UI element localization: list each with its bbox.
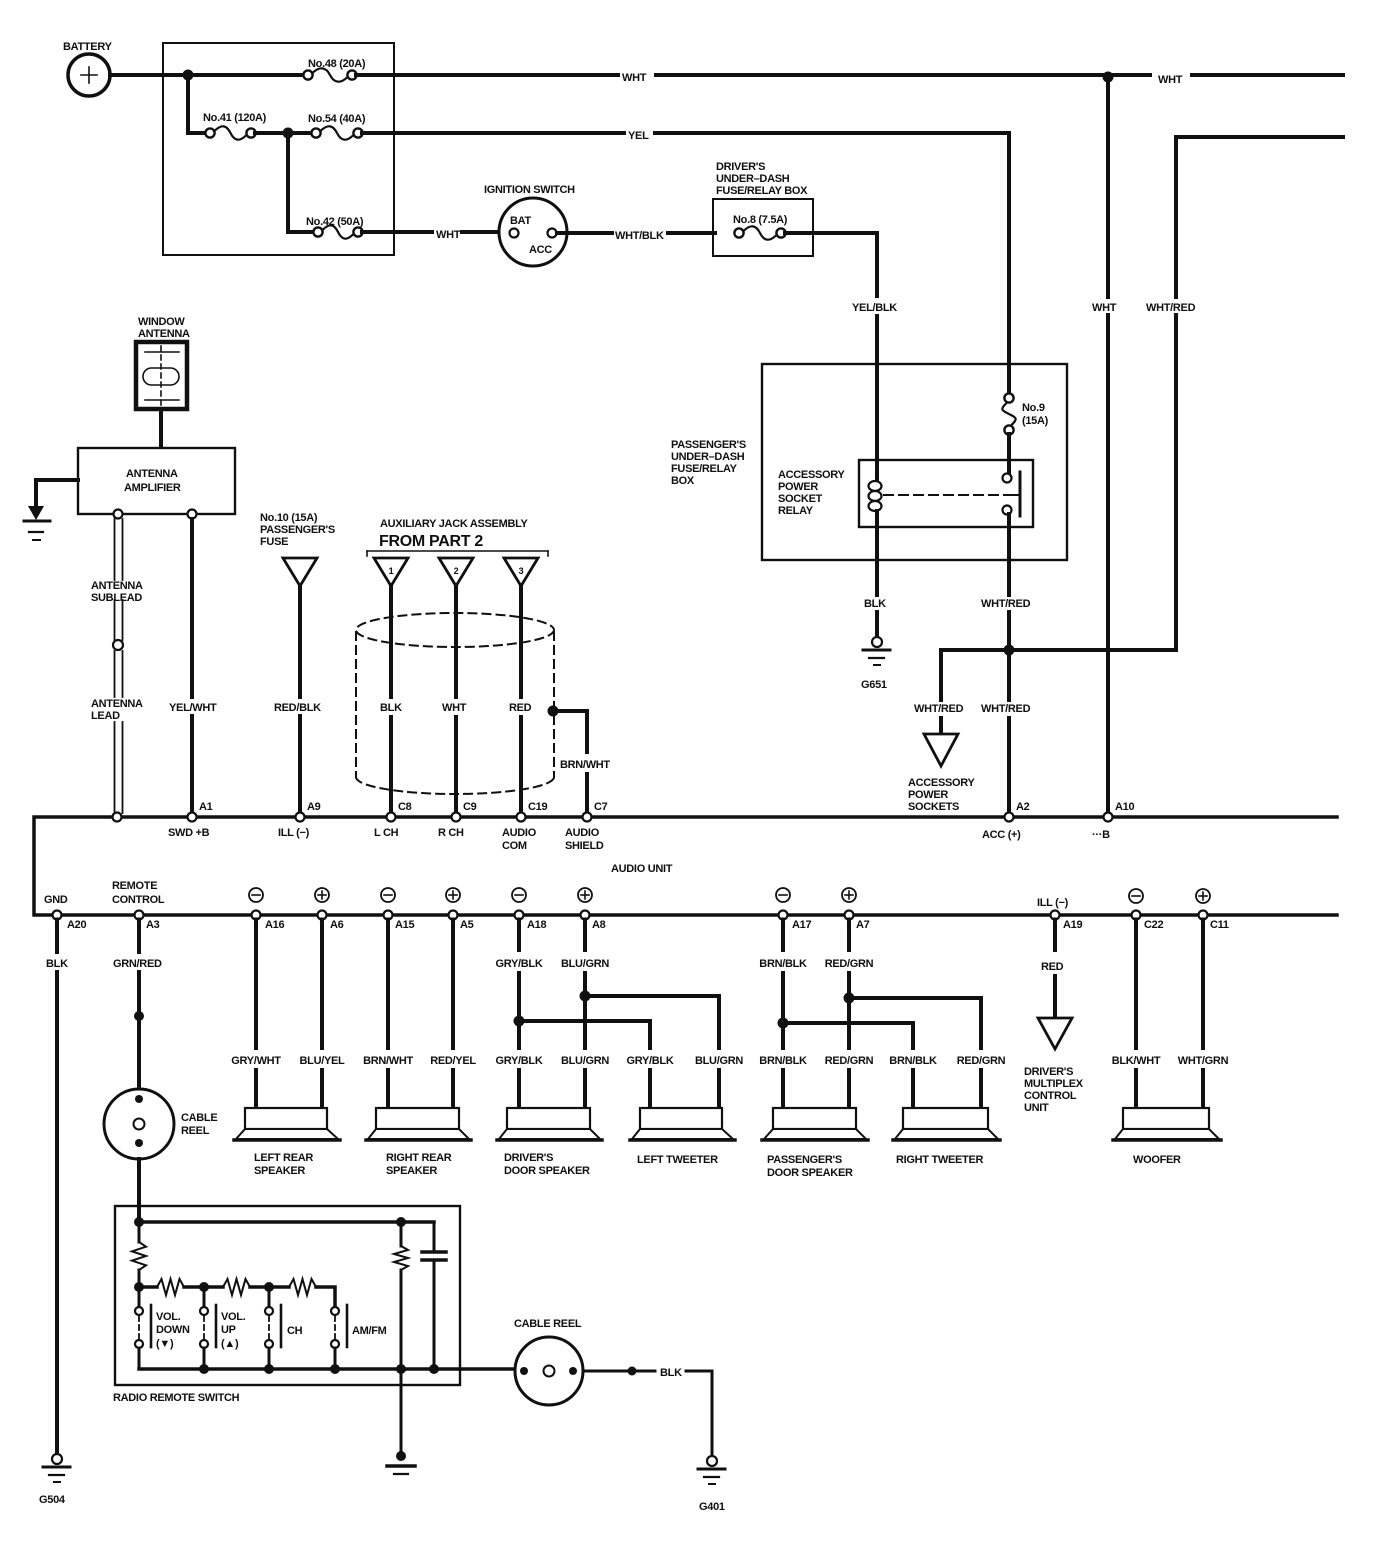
connector 2 — [439, 558, 473, 586]
svg-text:R CH: R CH — [438, 827, 464, 839]
svg-text:No.10 (15A): No.10 (15A) — [260, 512, 318, 524]
svg-text:G504: G504 — [39, 1494, 66, 1506]
node A8 branch — [580, 991, 591, 1002]
svg-text:ANTENNA: ANTENNA — [91, 580, 143, 592]
svg-text:PASSENGER'S: PASSENGER'S — [260, 524, 335, 536]
node fuse junction — [283, 128, 294, 139]
svg-text:WOOFER: WOOFER — [1133, 1154, 1181, 1166]
ignition switch — [484, 184, 575, 266]
wire window antenna to amplifier — [159, 409, 163, 448]
node bottom bus R2 — [396, 1364, 406, 1374]
terminal A6 — [315, 888, 344, 931]
wire WHT/RED relay contact down — [1007, 514, 1011, 560]
fuse No.10 passenger's fuse connector — [260, 512, 335, 586]
svg-text:POWER: POWER — [778, 481, 818, 493]
wire RED multiplex — [1053, 920, 1057, 951]
right tweeter — [893, 1108, 1000, 1166]
label BRN/WHT lower — [362, 1054, 414, 1068]
svg-text:RED: RED — [1041, 961, 1064, 973]
terminal C8 — [374, 801, 412, 839]
connector driver's multiplex control unit — [1024, 1018, 1084, 1114]
terminal A15 — [381, 888, 414, 931]
terminal A8 — [578, 888, 606, 931]
ground G401 — [698, 1456, 725, 1513]
svg-text:SUBLEAD: SUBLEAD — [91, 592, 142, 604]
radio remote switch box — [115, 1206, 460, 1385]
label RED/GRN lower — [823, 1054, 875, 1068]
terminal A3 — [112, 880, 165, 931]
wire amplifier to chassis ground — [36, 480, 78, 506]
relay coil — [869, 364, 882, 560]
svg-text:AUXILIARY JACK ASSEMBLY: AUXILIARY JACK ASSEMBLY — [380, 518, 528, 530]
svg-text:A19: A19 — [1063, 919, 1082, 931]
ground G504 — [39, 1454, 70, 1506]
under-hood fuse box outline — [163, 43, 394, 255]
wire GRY/WHT left rear - — [254, 920, 258, 1049]
svg-text:A8: A8 — [592, 919, 606, 931]
switch VOL UP — [200, 1287, 246, 1369]
ground G651 — [861, 637, 890, 691]
wire ladder end to AM/FM switch — [316, 1287, 335, 1305]
wire RED/GRN passenger's door + — [847, 920, 851, 951]
wire cable reel to switch box — [137, 1159, 141, 1222]
label RED — [1039, 960, 1063, 974]
right rear speaker — [366, 1108, 471, 1177]
wire WHT vertical right — [1106, 75, 1110, 297]
svg-text:RELAY: RELAY — [778, 505, 814, 517]
label WHT/RED right — [979, 702, 1031, 716]
svg-text:L CH: L CH — [374, 827, 399, 839]
wire RED/GRN branch to right tweeter — [849, 998, 981, 1048]
svg-text:REEL: REEL — [181, 1125, 210, 1137]
label BLK/WHT lower — [1110, 1054, 1162, 1068]
svg-text:C22: C22 — [1144, 919, 1163, 931]
svg-text:A15: A15 — [395, 919, 414, 931]
driver's under-dash fuse/relay box — [713, 161, 813, 256]
svg-text:A18: A18 — [527, 919, 546, 931]
wire WHT/GRN woofer + — [1201, 920, 1205, 1049]
svg-text:REMOTE: REMOTE — [112, 880, 157, 892]
svg-text:VOL.: VOL. — [221, 1311, 246, 1323]
svg-text:LEFT TWEETER: LEFT TWEETER — [637, 1154, 718, 1166]
svg-text:ILL (−): ILL (−) — [278, 827, 310, 839]
svg-text:LEAD: LEAD — [91, 710, 120, 722]
wire battery to fuse box — [110, 73, 186, 77]
svg-text:WHT/RED: WHT/RED — [1146, 302, 1196, 314]
svg-text:ANTENNA: ANTENNA — [91, 698, 143, 710]
svg-text:GRN/RED: GRN/RED — [113, 958, 162, 970]
wire BLU/YEL left rear + — [320, 920, 324, 1049]
svg-text:UP: UP — [221, 1324, 236, 1336]
label BLU/GRN tweeter — [693, 1054, 745, 1068]
terminal A16 — [249, 888, 284, 931]
switch VOL DOWN — [135, 1287, 190, 1369]
terminal A5 — [446, 888, 474, 931]
wire WHT/RED to accessory sockets — [939, 650, 943, 700]
fuse No.9 (15A) — [1002, 364, 1048, 435]
svg-text:RIGHT REAR: RIGHT REAR — [386, 1152, 452, 1164]
svg-text:A20: A20 — [67, 919, 86, 931]
connector accessory power sockets — [908, 734, 976, 813]
label BLK aux — [378, 701, 402, 715]
svg-text:ANTENNA: ANTENNA — [138, 328, 190, 340]
wire GRN/RED remote control — [137, 920, 141, 953]
terminal A18 — [512, 888, 546, 931]
svg-text:CONTROL: CONTROL — [112, 894, 165, 906]
svg-text:A17: A17 — [792, 919, 811, 931]
label RED/GRN upper — [823, 957, 875, 971]
wire WHT aux — [454, 586, 458, 697]
resistor R5 — [289, 1279, 316, 1295]
terminal A9 — [278, 801, 321, 839]
fuse No.42 (50A) — [306, 216, 364, 239]
wire junction down to No.41 — [188, 75, 206, 133]
wire No.41 to No.54 — [255, 131, 312, 135]
svg-text:···B: ···B — [1092, 829, 1110, 841]
svg-text:C11: C11 — [1210, 919, 1229, 931]
left tweeter — [630, 1108, 735, 1166]
svg-text:GND: GND — [44, 894, 68, 906]
svg-text:WHT: WHT — [442, 702, 467, 714]
svg-text:ANTENNA: ANTENNA — [126, 468, 178, 480]
svg-text:LEFT REAR: LEFT REAR — [254, 1152, 313, 1164]
wire BLU/GRN driver's door + — [583, 920, 587, 951]
svg-text:DOOR SPEAKER: DOOR SPEAKER — [767, 1167, 853, 1179]
svg-text:BLK: BLK — [864, 598, 886, 610]
terminal A20 — [44, 894, 86, 931]
node bottom bus C1 — [429, 1364, 439, 1374]
wire WHT to ignition switch — [362, 230, 432, 234]
svg-text:WINDOW: WINDOW — [138, 316, 185, 328]
wire YEL/BLK from No.8 down — [785, 233, 877, 296]
label WHT/RED left — [912, 702, 964, 716]
wire junction to fuse No.48 — [188, 73, 304, 77]
svg-text:UNDER–DASH: UNDER–DASH — [716, 173, 790, 185]
svg-text:BAT: BAT — [510, 215, 531, 227]
svg-text:DOWN: DOWN — [156, 1324, 190, 1336]
ground radio remote switch — [387, 1451, 415, 1474]
label WHT aux — [440, 701, 464, 715]
node WHT junction — [1103, 72, 1114, 83]
svg-text:(15A): (15A) — [1022, 415, 1049, 427]
node remote splice — [134, 1011, 144, 1021]
svg-text:WHT: WHT — [1158, 74, 1183, 86]
svg-text:C9: C9 — [463, 801, 477, 813]
terminal C9 — [438, 801, 477, 839]
node ladder 3 — [264, 1282, 274, 1292]
svg-text:A16: A16 — [265, 919, 284, 931]
svg-text:No.48 (20A): No.48 (20A) — [308, 58, 366, 70]
label RED/GRN tweeter — [955, 1054, 1007, 1068]
auxiliary jack assembly from part 2 — [367, 518, 548, 556]
svg-text:RED/GRN: RED/GRN — [825, 1055, 874, 1067]
node A17 branch — [778, 1018, 789, 1029]
svg-text:BRN/WHT: BRN/WHT — [363, 1055, 413, 1067]
wire WHT horizontal — [356, 73, 618, 77]
fuse No.54 (40A) — [308, 113, 366, 140]
label WHT/GRN lower — [1177, 1054, 1229, 1068]
svg-text:BLU/YEL: BLU/YEL — [300, 1055, 346, 1067]
svg-text:COM: COM — [502, 840, 527, 852]
svg-text:BLK: BLK — [660, 1367, 682, 1379]
antenna amplifier — [78, 448, 235, 514]
svg-text:WHT/RED: WHT/RED — [981, 598, 1031, 610]
terminal A19 — [1037, 897, 1082, 931]
svg-text:G401: G401 — [699, 1501, 725, 1513]
svg-text:BLU/GRN: BLU/GRN — [561, 958, 609, 970]
svg-text:AUDIO: AUDIO — [502, 827, 537, 839]
switch CH — [265, 1287, 303, 1369]
driver's door speaker — [497, 1108, 602, 1177]
terminal A10 — [1092, 801, 1134, 841]
svg-text:POWER: POWER — [908, 789, 948, 801]
fuse No.48 (20A) — [303, 58, 365, 82]
audio unit outline — [34, 817, 1337, 915]
svg-text:AUDIO: AUDIO — [565, 827, 600, 839]
svg-text:MULTIPLEX: MULTIPLEX — [1024, 1078, 1084, 1090]
wire BRN/WHT right rear - — [386, 920, 390, 1049]
svg-text:CONTROL: CONTROL — [1024, 1090, 1077, 1102]
wire BLU/GRN branch to left tweeter — [585, 996, 719, 1048]
terminal A7 — [842, 888, 870, 931]
svg-text:CABLE: CABLE — [181, 1112, 217, 1124]
svg-text:GRY/WHT: GRY/WHT — [231, 1055, 281, 1067]
svg-text:CABLE REEL: CABLE REEL — [514, 1318, 582, 1330]
fuse No.8 (7.5A) — [733, 214, 788, 240]
label BRN/WHT — [558, 758, 610, 772]
svg-text:WHT/GRN: WHT/GRN — [1178, 1055, 1229, 1067]
svg-text:DRIVER'S: DRIVER'S — [504, 1152, 553, 1164]
svg-text:RED/GRN: RED/GRN — [957, 1055, 1006, 1067]
terminal amplifier sublead — [114, 510, 123, 519]
svg-text:SWD +B: SWD +B — [168, 827, 210, 839]
svg-text:RED/GRN: RED/GRN — [825, 958, 874, 970]
svg-text:UNDER–DASH: UNDER–DASH — [671, 451, 745, 463]
svg-text:RADIO REMOTE SWITCH: RADIO REMOTE SWITCH — [113, 1392, 240, 1404]
svg-text:AM/FM: AM/FM — [352, 1325, 387, 1337]
label BRN/BLK tweeter — [887, 1054, 939, 1068]
label BLU/YEL lower — [296, 1054, 348, 1068]
svg-text:UNIT: UNIT — [1024, 1102, 1049, 1114]
svg-text:WHT/BLK: WHT/BLK — [615, 230, 664, 242]
svg-text:ACCESSORY: ACCESSORY — [778, 469, 846, 481]
resistor R4 — [223, 1279, 250, 1295]
svg-text:SPEAKER: SPEAKER — [386, 1165, 437, 1177]
terminal C19 — [502, 801, 547, 852]
svg-text:A6: A6 — [330, 919, 344, 931]
chassis ground (antenna amplifier) — [24, 506, 50, 540]
wire resistor ladder — [139, 1285, 157, 1289]
svg-text:BRN/WHT: BRN/WHT — [560, 759, 610, 771]
svg-text:SPEAKER: SPEAKER — [254, 1165, 305, 1177]
svg-text:A10: A10 — [1115, 801, 1134, 813]
wire YEL horizontal — [362, 131, 624, 135]
label GRY/BLK upper — [493, 957, 545, 971]
terminal C22 — [1129, 889, 1163, 931]
battery — [63, 41, 113, 96]
node bottom bus sw2 — [199, 1364, 209, 1374]
wire internal bottom bus — [139, 1367, 515, 1371]
node bottom bus sw4 — [330, 1364, 340, 1374]
svg-text:A3: A3 — [146, 919, 160, 931]
svg-text:No.8 (7.5A): No.8 (7.5A) — [733, 214, 788, 226]
svg-text:RED/YEL: RED/YEL — [430, 1055, 476, 1067]
svg-text:FUSE/RELAY BOX: FUSE/RELAY BOX — [716, 185, 808, 197]
svg-text:BLU/GRN: BLU/GRN — [695, 1055, 743, 1067]
svg-text:YEL: YEL — [628, 130, 649, 142]
node A18 branch — [514, 1016, 525, 1027]
label BLU/GRN upper — [559, 957, 611, 971]
wire YEL/WHT — [190, 519, 194, 697]
svg-text:ACCESSORY: ACCESSORY — [908, 777, 976, 789]
svg-text:C7: C7 — [594, 801, 608, 813]
terminal A1 — [168, 801, 213, 839]
svg-text:YEL/BLK: YEL/BLK — [852, 302, 897, 314]
svg-text:WHT: WHT — [622, 72, 647, 84]
svg-text:DOOR SPEAKER: DOOR SPEAKER — [504, 1165, 590, 1177]
fuse No.41 (120A) — [203, 112, 267, 140]
svg-text:No.9: No.9 — [1022, 402, 1045, 414]
wire BRN/BLK branch to right tweeter — [783, 1023, 913, 1048]
svg-text:(▲): (▲) — [221, 1338, 239, 1350]
svg-text:BRN/BLK: BRN/BLK — [759, 958, 807, 970]
label BRN/BLK lower — [757, 1054, 809, 1068]
svg-text:PASSENGER'S: PASSENGER'S — [767, 1154, 842, 1166]
svg-text:CH: CH — [287, 1325, 303, 1337]
svg-text:No.54 (40A): No.54 (40A) — [308, 113, 366, 125]
svg-text:BRN/BLK: BRN/BLK — [759, 1055, 807, 1067]
svg-text:BLK: BLK — [380, 702, 402, 714]
terminal C7 — [565, 801, 608, 852]
svg-text:RED: RED — [509, 702, 532, 714]
switch AM/FM — [331, 1287, 387, 1369]
wire RED/YEL right rear + — [451, 920, 455, 1049]
svg-text:WHT: WHT — [1092, 302, 1117, 314]
svg-text:GRY/BLK: GRY/BLK — [496, 1055, 543, 1067]
wire WHT/RED top right — [1176, 137, 1343, 297]
label BRN/BLK upper — [757, 957, 809, 971]
label GRY/BLK tweeter — [624, 1054, 676, 1068]
node WHT/RED junction — [1004, 645, 1015, 656]
wire YEL down to passenger box — [1007, 133, 1011, 364]
svg-text:AMPLIFIER: AMPLIFIER — [124, 482, 181, 494]
cable reel (remote) — [104, 1089, 217, 1159]
svg-text:SHIELD: SHIELD — [565, 840, 604, 852]
svg-text:YEL/WHT: YEL/WHT — [169, 702, 217, 714]
wire WHT/RED to A2 — [1007, 650, 1011, 700]
svg-text:(▼): (▼) — [156, 1338, 174, 1350]
node ladder 1 — [134, 1282, 144, 1292]
node bottom bus sw3 — [264, 1364, 274, 1374]
wire horizontal junction row — [941, 648, 1176, 652]
svg-text:A2: A2 — [1016, 801, 1030, 813]
left rear speaker — [234, 1108, 340, 1177]
wire BRN/WHT shield to C7 — [553, 711, 587, 752]
svg-text:WHT/RED: WHT/RED — [914, 703, 964, 715]
svg-text:RIGHT TWEETER: RIGHT TWEETER — [896, 1154, 984, 1166]
svg-text:BRN/BLK: BRN/BLK — [889, 1055, 937, 1067]
svg-text:A5: A5 — [460, 919, 474, 931]
label GRY/BLK lower — [493, 1054, 545, 1068]
svg-text:IGNITION SWITCH: IGNITION SWITCH — [484, 184, 575, 196]
connector 3 — [504, 558, 538, 586]
svg-text:C19: C19 — [528, 801, 547, 813]
svg-text:GRY/BLK: GRY/BLK — [496, 958, 543, 970]
accessory power socket relay box — [778, 460, 1033, 527]
svg-text:RED/BLK: RED/BLK — [274, 702, 321, 714]
wire RED/BLK — [298, 586, 302, 697]
svg-text:GRY/BLK: GRY/BLK — [627, 1055, 674, 1067]
svg-text:SOCKETS: SOCKETS — [908, 801, 959, 813]
svg-text:3: 3 — [519, 566, 524, 576]
svg-text:No.41 (120A): No.41 (120A) — [203, 112, 267, 124]
svg-text:A9: A9 — [307, 801, 321, 813]
node A7 branch — [844, 993, 855, 1004]
svg-text:G651: G651 — [861, 679, 887, 691]
relay armature dashed link — [884, 494, 1012, 496]
node BLK splice — [628, 1367, 637, 1376]
terminal antenna lead — [113, 813, 122, 822]
node ladder 2 — [199, 1282, 209, 1292]
capacitor C1 — [433, 1222, 436, 1250]
wire RED aux — [519, 586, 523, 697]
label GRY/WHT lower — [230, 1054, 282, 1068]
window antenna — [136, 316, 190, 409]
svg-text:SOCKET: SOCKET — [778, 493, 823, 505]
wire antenna sublead (coax) — [114, 519, 116, 580]
svg-text:C8: C8 — [398, 801, 412, 813]
svg-text:BOX: BOX — [671, 475, 695, 487]
svg-text:ILL (−): ILL (−) — [1037, 897, 1069, 909]
passenger's door speaker — [762, 1108, 868, 1179]
svg-text:FROM PART 2: FROM PART 2 — [379, 533, 483, 550]
wire BLK coil to ground — [875, 560, 879, 595]
wire BLK cable reel to G401 — [583, 1370, 655, 1373]
svg-text:WHT: WHT — [436, 229, 461, 241]
relay contact — [1003, 434, 1021, 516]
shield dashed cylinder — [356, 613, 554, 794]
resistor R3 — [157, 1279, 184, 1295]
wire BLK to G504 — [55, 920, 59, 953]
woofer — [1113, 1108, 1221, 1166]
resistor R2 (right vertical) — [400, 1222, 403, 1246]
svg-text:A1: A1 — [199, 801, 213, 813]
terminal amplifier yel/wht — [188, 510, 197, 519]
resistor R1 (left vertical) — [138, 1222, 141, 1242]
svg-text:1: 1 — [389, 566, 394, 576]
svg-text:FUSE: FUSE — [260, 536, 288, 548]
wire BRN/BLK passenger's door - — [781, 920, 785, 951]
svg-text:BLK: BLK — [46, 958, 68, 970]
terminal A17 — [776, 888, 811, 931]
label RED aux — [507, 701, 531, 715]
svg-text:DRIVER'S: DRIVER'S — [1024, 1066, 1073, 1078]
wire R2 to ground — [400, 1369, 403, 1452]
wire GRY/BLK driver's door - — [517, 920, 521, 951]
svg-text:ACC: ACC — [529, 244, 552, 256]
wire BLK aux — [389, 586, 393, 697]
svg-text:BLK/WHT: BLK/WHT — [1112, 1055, 1161, 1067]
svg-text:2: 2 — [454, 566, 459, 576]
svg-text:WHT/RED: WHT/RED — [981, 703, 1031, 715]
connector 1 — [374, 558, 408, 586]
svg-text:AUDIO UNIT: AUDIO UNIT — [611, 863, 673, 875]
connector antenna lead joint — [113, 640, 123, 650]
svg-text:BATTERY: BATTERY — [63, 41, 113, 53]
terminal A2 — [982, 801, 1030, 841]
node battery junction — [183, 70, 194, 81]
svg-text:A7: A7 — [856, 919, 870, 931]
